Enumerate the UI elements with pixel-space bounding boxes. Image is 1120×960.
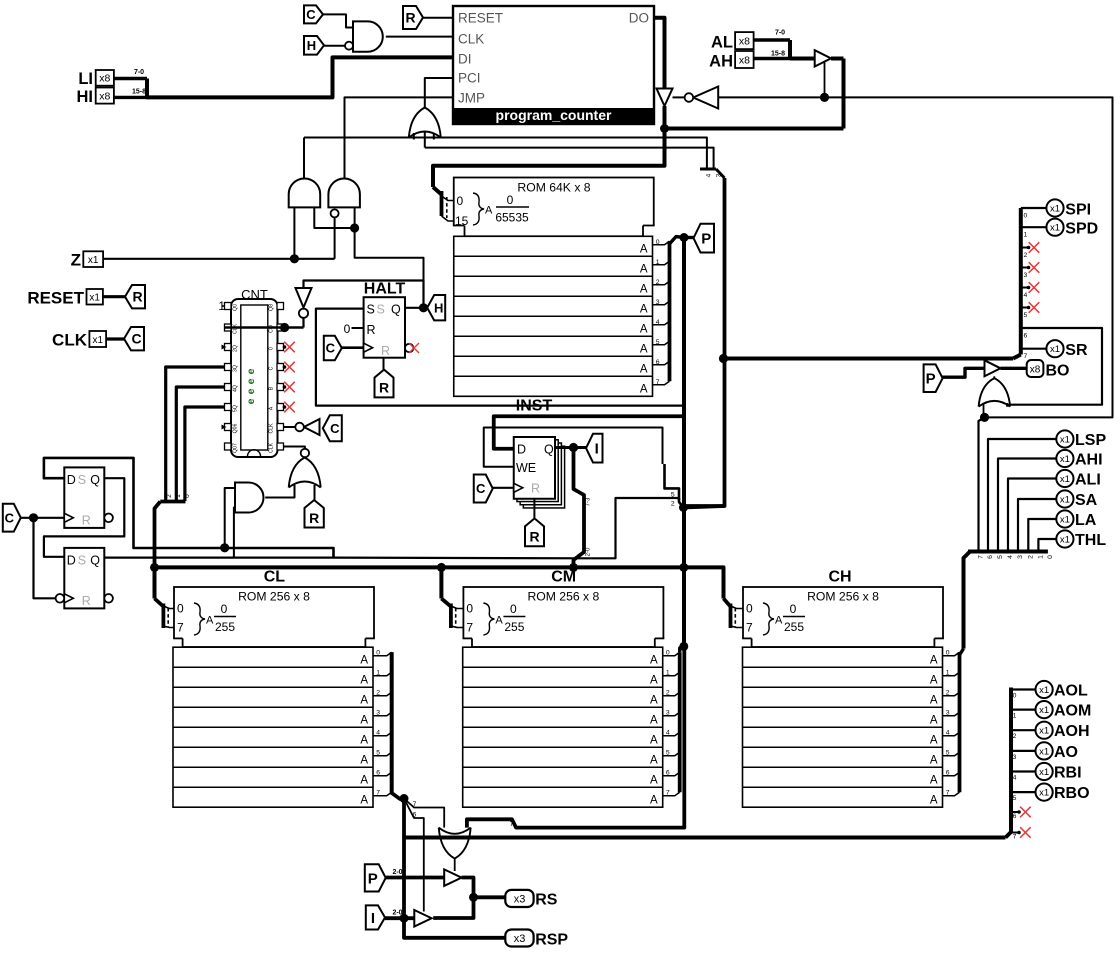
- junction addr CNT: [150, 563, 159, 572]
- svg-text:C: C: [269, 366, 275, 370]
- svg-text:x1: x1: [1039, 726, 1049, 737]
- svg-text:A: A: [650, 755, 658, 767]
- svg-text:A: A: [360, 675, 368, 687]
- svg-text:5: 5: [666, 750, 670, 757]
- unconnected X cnt2: [284, 382, 295, 393]
- svg-text:C: C: [5, 510, 15, 525]
- wire SPD: [1021, 226, 1047, 228]
- svg-text:0: 0: [790, 602, 797, 616]
- svg-text:A: A: [650, 715, 658, 727]
- junction Z-G1: [290, 254, 299, 263]
- svg-text:2: 2: [671, 501, 675, 508]
- junction addr P: [679, 563, 688, 572]
- svg-text:A: A: [360, 655, 368, 667]
- wire CNT row2: [224, 326, 304, 329]
- unconnected X cnt0: [284, 342, 295, 353]
- wire notline right edge: [718, 97, 1113, 417]
- svg-text:7: 7: [1024, 353, 1028, 360]
- wire G2 in2 down: [354, 207, 356, 228]
- register rows INST: [454, 236, 653, 396]
- wire buf1 out: [433, 878, 473, 919]
- splitter CH rows: [943, 652, 960, 656]
- svg-text:2-0: 2-0: [586, 547, 592, 556]
- svg-text:x1: x1: [1060, 535, 1070, 546]
- svg-text:AO: AO: [1054, 744, 1078, 761]
- svg-text:x1: x1: [1060, 515, 1070, 526]
- svg-text:5: 5: [946, 750, 950, 757]
- svg-text:S: S: [78, 553, 86, 567]
- wire H to gate bubble: [324, 45, 345, 47]
- svg-text:AL: AL: [711, 34, 733, 52]
- svg-text:3Q: 3Q: [233, 365, 239, 372]
- unconnected X cnt1: [284, 362, 295, 373]
- svg-text:4: 4: [376, 730, 380, 737]
- rom CH brace: [763, 603, 774, 635]
- svg-text:0: 0: [457, 194, 464, 208]
- wire reg R down: [533, 499, 535, 519]
- rom CM fracbar: [503, 616, 525, 618]
- svg-text:2: 2: [666, 690, 670, 697]
- svg-text:ALI: ALI: [1075, 472, 1101, 489]
- wire G2-in2 to HALT S region: [355, 228, 424, 308]
- svg-text:x1: x1: [1039, 705, 1049, 716]
- svg-text:255: 255: [504, 620, 524, 634]
- splitter INST tail: [670, 237, 685, 244]
- svg-text:x1: x1: [1039, 767, 1049, 778]
- svg-text:D: D: [67, 473, 76, 487]
- svg-text:4: 4: [666, 730, 670, 737]
- pin AH x8: [735, 51, 754, 68]
- svg-text:x1: x1: [1050, 344, 1060, 355]
- svg-text:B: B: [269, 386, 275, 390]
- counter CNT pins: [225, 303, 232, 310]
- svg-text:CLK: CLK: [458, 32, 484, 47]
- svg-text:4: 4: [1013, 775, 1017, 782]
- wire SP bit6 frame: [1008, 328, 1103, 407]
- wire AOL: [1011, 688, 1036, 690]
- svg-text:A: A: [640, 384, 648, 396]
- svg-text:4: 4: [1024, 292, 1028, 299]
- svg-text:S: S: [78, 473, 86, 487]
- svg-text:CL: CL: [264, 569, 286, 586]
- and gate G2 (up): [328, 178, 360, 207]
- svg-text:6: 6: [656, 359, 660, 366]
- bus P down: [682, 238, 686, 647]
- bus SP left: [724, 357, 1014, 361]
- wire AHI: [998, 459, 1056, 550]
- svg-text:1: 1: [1024, 232, 1028, 239]
- svg-text:A: A: [495, 615, 503, 627]
- wire dffq jog: [584, 498, 679, 558]
- or gate RS (down): [439, 828, 471, 859]
- junction HALT Q: [419, 303, 428, 312]
- svg-text:6: 6: [946, 770, 950, 777]
- svg-text:R: R: [309, 510, 319, 526]
- bus DO right: [665, 127, 844, 131]
- DFF2 out bubble: [104, 594, 113, 603]
- svg-text:A: A: [360, 755, 368, 767]
- wire Z: [103, 258, 335, 260]
- svg-text:A: A: [650, 775, 658, 787]
- svg-text:x8: x8: [99, 91, 110, 103]
- svg-text:3: 3: [656, 299, 660, 306]
- pin SA circle: [1056, 490, 1073, 507]
- pin HI x8: [96, 88, 114, 104]
- rom ROM64K brace: [473, 193, 484, 225]
- svg-text:A: A: [360, 695, 368, 707]
- svg-text:7: 7: [376, 790, 380, 797]
- svg-text:5: 5: [1013, 795, 1017, 802]
- pin RSP x3: [505, 930, 533, 947]
- svg-text:H: H: [434, 300, 443, 315]
- svg-text:C: C: [306, 7, 316, 22]
- svg-text:A: A: [640, 344, 648, 356]
- svg-text:3: 3: [1024, 272, 1028, 279]
- rom CL box: [174, 587, 374, 647]
- junction CL out: [400, 794, 409, 803]
- svg-text:LSP: LSP: [1075, 432, 1106, 449]
- rom ROM64K box: [454, 178, 654, 237]
- splitter CL tail: [392, 652, 404, 799]
- svg-text:I: I: [595, 441, 599, 458]
- wire lineB (PCI-or across): [425, 148, 714, 169]
- bus regQ down: [574, 448, 585, 568]
- wire buf to BO: [1001, 367, 1027, 370]
- svg-text:A: A: [650, 795, 658, 807]
- svg-text:7: 7: [946, 790, 950, 797]
- svg-text:0: 0: [946, 650, 950, 657]
- wire RBI: [1011, 770, 1036, 772]
- wire ALAH buf out: [831, 57, 844, 61]
- tunnel I (bottom): [366, 905, 385, 929]
- svg-text:4: 4: [1007, 555, 1014, 559]
- rom CH box: [743, 587, 943, 647]
- svg-text:JMP: JMP: [458, 90, 485, 105]
- svg-text:HALT: HALT: [364, 281, 406, 298]
- wire C to gate in1: [323, 14, 353, 27]
- svg-text:SPD: SPD: [1065, 221, 1098, 238]
- pin AOL circle: [1036, 681, 1053, 698]
- wire DFF1 Q to DFF2 D: [44, 478, 124, 557]
- junction RS: [469, 893, 478, 902]
- svg-text:AOL: AOL: [1054, 683, 1088, 700]
- bubble G2 left input: [331, 209, 339, 217]
- wire CLK to tunnel: [106, 337, 124, 340]
- pin CLK x1: [89, 331, 106, 347]
- svg-text:2-0: 2-0: [392, 869, 402, 876]
- not gate row7: [304, 419, 320, 435]
- wire AH: [754, 57, 790, 60]
- unconnected X sp0: [1021, 247, 1028, 249]
- wire DO: [654, 18, 665, 89]
- junction G2 in2: [350, 223, 359, 232]
- unconnected X sp2: [1021, 287, 1028, 289]
- wire ALI: [1008, 479, 1056, 550]
- wire CNT bit1: [176, 387, 224, 501]
- svg-text:A: A: [650, 675, 658, 687]
- svg-text:5: 5: [376, 750, 380, 757]
- wire HALT Rpin down: [383, 358, 385, 370]
- wire C to HALT clk: [342, 346, 364, 349]
- register INST shadow2: [520, 443, 561, 505]
- buffer DO (down): [657, 89, 673, 107]
- wire not out: [673, 96, 685, 98]
- splitter CM address: [441, 599, 451, 607]
- svg-text:7: 7: [1013, 834, 1017, 841]
- bus LSP splitter bar: [968, 550, 1048, 554]
- svg-text:P: P: [701, 231, 711, 248]
- wire G3 in2: [234, 508, 235, 558]
- bus register D: [494, 416, 684, 449]
- svg-text:RBI: RBI: [1054, 765, 1082, 782]
- svg-text:R: R: [381, 344, 390, 358]
- svg-text:7: 7: [746, 621, 753, 635]
- svg-text:A: A: [650, 735, 658, 747]
- splitter ROM64K spine: [440, 191, 444, 216]
- svg-text:A: A: [269, 406, 275, 410]
- or gate PCI input stubs: [413, 133, 415, 140]
- splitter 2bit bar: [700, 168, 716, 171]
- svg-text:0: 0: [344, 322, 351, 336]
- nor in right to R tunnel: [314, 485, 316, 501]
- svg-text:INST: INST: [516, 398, 553, 415]
- DFF2 clock triangle: [64, 594, 73, 603]
- tunnel C (halt clock): [324, 336, 342, 360]
- svg-text:x1: x1: [1060, 454, 1070, 465]
- pin RBO circle: [1036, 784, 1053, 801]
- splitter SP tail: [1013, 355, 1021, 359]
- svg-text:1: 1: [666, 670, 670, 677]
- pin BO x8: [1027, 360, 1044, 377]
- svg-text:ROM 64K x 8: ROM 64K x 8: [517, 181, 590, 195]
- rom CL brace: [194, 603, 205, 635]
- wire AL: [754, 38, 790, 41]
- splitter CNT bar: [160, 500, 185, 504]
- svg-text:0: 0: [376, 650, 380, 657]
- svg-text:LI: LI: [78, 70, 93, 88]
- flipflop DFF2 box: [64, 548, 104, 609]
- wire THL: [1038, 539, 1056, 550]
- HALT clock triangle: [364, 343, 373, 352]
- svg-text:6: 6: [666, 770, 670, 777]
- bus LIHI to DI: [146, 57, 453, 97]
- svg-text:0: 0: [666, 650, 670, 657]
- svg-text:x8: x8: [99, 73, 110, 85]
- svg-text:3: 3: [946, 710, 950, 717]
- svg-text:A: A: [930, 695, 938, 707]
- svg-text:RBO: RBO: [1054, 785, 1090, 802]
- svg-text:3: 3: [666, 710, 670, 717]
- bus CLout down: [402, 799, 406, 919]
- splitter ROM64K tail: [433, 187, 442, 195]
- svg-text:0: 0: [1047, 555, 1054, 559]
- tunnel R (reset): [403, 6, 423, 29]
- svg-text:CLK: CLK: [269, 442, 275, 453]
- svg-text:x1: x1: [88, 255, 99, 266]
- pin AHI circle: [1056, 450, 1073, 467]
- svg-text:7: 7: [978, 555, 985, 559]
- svg-text:A: A: [640, 244, 648, 256]
- svg-text:Q: Q: [544, 443, 554, 457]
- svg-text:0: 0: [466, 602, 473, 616]
- svg-text:7: 7: [177, 621, 184, 635]
- svg-text:x1: x1: [1060, 474, 1070, 485]
- svg-text:2: 2: [166, 494, 173, 498]
- buffer H (down): [296, 288, 312, 308]
- splitter we tail: [679, 498, 684, 508]
- svg-text:AH: AH: [709, 53, 733, 71]
- svg-text:Q8: Q8: [269, 304, 275, 311]
- splitter CL address: [155, 599, 164, 607]
- svg-text:R: R: [367, 323, 376, 337]
- junction CNT row2: [280, 323, 289, 332]
- wire dot to P tunnel: [684, 236, 694, 239]
- bus address: [155, 567, 724, 598]
- rom CL notches: [173, 638, 183, 648]
- svg-text:e: e: [245, 378, 257, 384]
- splitter ALAH vert: [788, 40, 792, 59]
- svg-text:A: A: [930, 755, 938, 767]
- svg-text:program_counter: program_counter: [496, 107, 612, 123]
- svg-text:0: 0: [1024, 213, 1028, 220]
- pin LSP circle: [1056, 430, 1073, 447]
- wire RBO: [1011, 791, 1036, 793]
- bus ALAH to buf: [790, 57, 815, 61]
- tunnel R (halt reset): [375, 370, 394, 398]
- svg-text:SPI: SPI: [1065, 201, 1091, 218]
- svg-text:CLK: CLK: [52, 331, 88, 350]
- wire RS: [474, 895, 506, 899]
- svg-text:0: 0: [221, 602, 228, 616]
- bus we-split: [665, 464, 680, 500]
- svg-text:x1: x1: [89, 293, 100, 304]
- rom rows CL: [173, 647, 373, 807]
- or BO in stubs: [983, 404, 985, 417]
- svg-text:3: 3: [1013, 754, 1017, 761]
- splitter ROM64K pin0: [442, 196, 454, 201]
- svg-text:RESET: RESET: [27, 289, 84, 308]
- svg-text:255: 255: [215, 620, 235, 634]
- register INST box: [514, 437, 555, 499]
- svg-text:x8: x8: [739, 55, 750, 67]
- pin SPD circle: [1046, 219, 1063, 236]
- svg-text:Z: Z: [71, 251, 81, 270]
- wire LA: [1028, 519, 1056, 550]
- wire C to reg clk: [493, 487, 514, 489]
- rom rows CH: [743, 647, 943, 807]
- rom CM notches: [462, 638, 472, 648]
- DFF1 out bubble: [104, 514, 113, 523]
- svg-text:x1: x1: [1039, 746, 1049, 757]
- svg-text:S: S: [377, 303, 385, 317]
- svg-text:e: e: [245, 398, 257, 404]
- junction P bus: [680, 233, 689, 242]
- svg-text:R: R: [132, 289, 142, 305]
- or gate BO ctl (up): [979, 378, 1011, 407]
- tunnel P (bottom): [365, 864, 386, 891]
- pin LI x8: [96, 70, 114, 86]
- pin SPI circle: [1046, 199, 1063, 216]
- wire clsplit b7: [404, 799, 444, 828]
- rom CM brace: [483, 603, 494, 635]
- svg-text:A: A: [930, 775, 938, 787]
- svg-text:HI: HI: [77, 88, 94, 106]
- DFF1 clock triangle: [64, 513, 73, 522]
- counter CNT notch: [248, 450, 261, 457]
- pin Z x1: [83, 251, 103, 267]
- svg-text:3: 3: [376, 710, 380, 717]
- wire lineA (gate1 out across): [304, 138, 707, 170]
- wire WE: [484, 428, 663, 467]
- pin RBI circle: [1036, 763, 1053, 780]
- svg-text:7-0: 7-0: [134, 69, 144, 76]
- svg-text:2: 2: [1013, 733, 1017, 740]
- tunnel C (register clock): [474, 475, 493, 503]
- svg-text:A: A: [930, 735, 938, 747]
- unconnected mark cnt-left r7: [222, 425, 227, 430]
- unconnected X cnt3: [284, 402, 295, 413]
- svg-text:1: 1: [1037, 555, 1044, 559]
- svg-text:BO: BO: [1046, 363, 1070, 380]
- svg-text:0: 0: [184, 494, 191, 498]
- tunnel C (dff clock): [3, 504, 21, 532]
- svg-text:A: A: [930, 655, 938, 667]
- wire LI to splitter: [114, 77, 147, 80]
- junction mid bus: [679, 503, 688, 512]
- svg-text:x1: x1: [1039, 685, 1049, 696]
- svg-text:Q: Q: [391, 303, 401, 317]
- junction addr CM: [437, 563, 446, 572]
- tunnel C (clock into CLK gate): [304, 5, 323, 23]
- rom ROM64K fracbar: [496, 206, 529, 208]
- svg-text:THL: THL: [1075, 532, 1106, 549]
- svg-text:AOH: AOH: [1054, 723, 1090, 740]
- wire R to RESET: [423, 17, 453, 19]
- wire HALT Q to H: [405, 307, 427, 309]
- rom CL fracbar: [214, 616, 236, 618]
- splitter ROM64K pin15: [442, 216, 454, 221]
- counter CNT body: [231, 299, 278, 457]
- junction CM spine: [679, 642, 688, 651]
- splitter CNT tail: [155, 502, 161, 569]
- wire G1 in1 down to Z: [293, 207, 295, 258]
- wire CNT bit2: [166, 367, 224, 501]
- bus AOL up: [1006, 688, 1012, 838]
- wire RESET to tunnel: [103, 295, 125, 298]
- bus AOL line: [404, 836, 1006, 840]
- bus DO to ROM addr: [433, 129, 665, 188]
- register INST shadow1: [517, 440, 558, 502]
- svg-text:RS: RS: [535, 891, 558, 908]
- svg-text:15-8: 15-8: [771, 51, 785, 58]
- tunnel H (halt out): [427, 295, 445, 320]
- wire HI to splitter: [114, 96, 147, 99]
- junction DO bus: [660, 124, 669, 133]
- bus ALAH buf down: [842, 59, 846, 129]
- tunnel R (nor in): [305, 500, 324, 528]
- unconnected X ao0: [1011, 811, 1018, 813]
- splitter CL rows: [373, 652, 392, 656]
- junction albuf ctl: [820, 93, 829, 102]
- svg-text:A: A: [640, 364, 648, 376]
- wire DFF2Q onward: [334, 556, 585, 559]
- svg-text:5: 5: [671, 491, 675, 498]
- and gate (C AND NOT H): [353, 21, 383, 51]
- svg-text:0: 0: [510, 602, 517, 616]
- svg-text:CH: CH: [828, 569, 851, 586]
- splitter SP spine: [1019, 208, 1023, 355]
- unconnected X ao1: [1011, 832, 1018, 834]
